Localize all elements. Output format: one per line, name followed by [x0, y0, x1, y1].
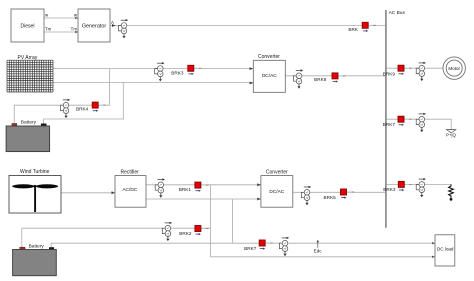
svg-text:BRK7: BRK7 — [244, 246, 257, 251]
svg-text:Battery: Battery — [21, 120, 37, 126]
svg-text:AC Bus: AC Bus — [389, 10, 406, 16]
svg-text:w: w — [74, 13, 78, 18]
svg-text:BRK5: BRK5 — [324, 195, 337, 200]
svg-text:Converter: Converter — [266, 170, 288, 176]
svg-text:BRK4: BRK4 — [76, 106, 89, 111]
svg-text:Wind Turbine: Wind Turbine — [20, 169, 50, 175]
svg-text:AC/DC: AC/DC — [122, 187, 137, 193]
svg-text:BRK7: BRK7 — [383, 122, 396, 127]
svg-text:Converter: Converter — [258, 54, 280, 60]
svg-text:DC load: DC load — [437, 247, 454, 252]
svg-text:BRK3: BRK3 — [383, 187, 396, 192]
svg-text:BRK9: BRK9 — [383, 71, 396, 76]
svg-text:A: A — [111, 20, 114, 25]
svg-text:DC/AC: DC/AC — [269, 189, 284, 195]
svg-text:Tm: Tm — [71, 27, 78, 32]
svg-text:w: w — [45, 13, 49, 18]
svg-text:Tm: Tm — [45, 27, 52, 32]
svg-text:BRK: BRK — [348, 27, 359, 32]
svg-text:BRK2: BRK2 — [179, 231, 192, 236]
svg-text:BRK1: BRK1 — [179, 187, 192, 192]
svg-text:P+jQ: P+jQ — [446, 132, 456, 137]
svg-text:Edc: Edc — [314, 248, 323, 253]
svg-text:Motor: Motor — [448, 66, 460, 71]
svg-text:BRK8: BRK8 — [314, 77, 327, 82]
svg-text:BRK3: BRK3 — [171, 70, 184, 75]
svg-text:Rectifier: Rectifier — [121, 170, 140, 176]
svg-text:Diesel: Diesel — [21, 23, 35, 29]
svg-text:DC/AC: DC/AC — [262, 73, 277, 79]
svg-text:Battery: Battery — [29, 244, 45, 250]
svg-text:Generator: Generator — [82, 24, 106, 30]
